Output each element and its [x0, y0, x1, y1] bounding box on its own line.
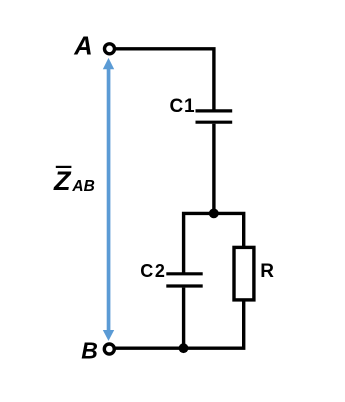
svg-text:C2: C2 [140, 261, 166, 281]
label Z_AB [53, 166, 95, 196]
svg-text:B: B [81, 338, 98, 364]
node: junction dot on bottom rail [179, 343, 189, 353]
capacitor C2 [166, 274, 202, 286]
terminal A (open circle) [105, 44, 115, 54]
impedance arrow Z_AB (double-headed, blue) [103, 58, 114, 341]
resistor R [234, 247, 254, 300]
wire: terminal A to top-right corner and down to C1 [115, 49, 214, 110]
wire: C1 bottom to node [212, 124, 215, 214]
terminal B (open circle) [104, 344, 114, 354]
wire: R bottom to bottom rail corner [115, 300, 244, 348]
node: junction dot at top of parallel branches [209, 209, 219, 219]
svg-text:AB: AB [71, 178, 94, 195]
wire: parallel-branch top rail [184, 213, 244, 272]
wire: C2 bottom to bottom rail [182, 288, 185, 349]
svg-text:C1: C1 [170, 96, 196, 117]
svg-text:R: R [260, 261, 274, 282]
capacitor C1 [196, 111, 233, 122]
svg-text:A: A [73, 32, 92, 60]
svg-text:Z: Z [53, 166, 72, 196]
